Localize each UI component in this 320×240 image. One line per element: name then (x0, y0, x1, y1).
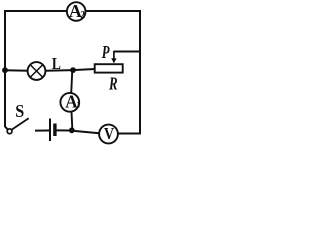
node mid junction (70, 67, 76, 73)
wire left vertical (5, 10, 8, 130)
wire junction to lamp (5, 69, 29, 71)
rheostat R body (95, 64, 123, 72)
wire right vertical (139, 10, 141, 134)
wire lamp to mid junction (45, 69, 72, 72)
wire top-left segment (5, 10, 67, 12)
lamp L (28, 62, 46, 80)
ammeter A2 (67, 1, 86, 21)
wire mid junction to rheostat (73, 69, 96, 70)
ammeter A1 (60, 91, 80, 111)
wire switch to battery (35, 130, 49, 132)
switch S blade (12, 118, 29, 129)
svg-text:2: 2 (80, 10, 85, 21)
wire ammeter A1 to bottom junction (71, 112, 74, 131)
wire wiper tap to right wire (114, 51, 140, 53)
label S (15, 101, 24, 121)
wire battery to junction (56, 129, 73, 131)
voltmeter V (99, 124, 118, 144)
battery cell (50, 119, 55, 142)
label L (52, 54, 61, 73)
label P (101, 42, 110, 62)
node bottom junction (69, 127, 75, 133)
svg-text:S: S (15, 101, 24, 121)
wire mid junction to ammeter A1 (71, 70, 72, 93)
rheostat wiper arrow P (111, 51, 116, 64)
switch S pivot (7, 129, 12, 134)
svg-text:R: R (108, 74, 117, 94)
wire bottom-right to voltmeter (118, 133, 141, 135)
wire voltmeter to bottom junction (73, 131, 100, 134)
svg-text:1: 1 (76, 99, 80, 109)
svg-text:P: P (101, 42, 110, 62)
label R (108, 74, 117, 94)
node lamp-row left junction (2, 67, 8, 73)
wire top-right segment (86, 10, 142, 12)
svg-text:V: V (104, 124, 115, 143)
